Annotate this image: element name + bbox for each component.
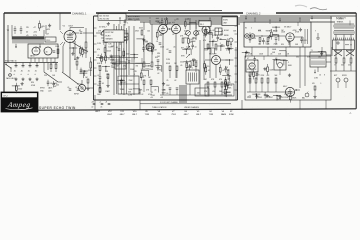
tube V6 6SL7: [284, 26, 294, 41]
node small box T: [199, 21, 211, 26]
node T2 upper text: [26, 27, 42, 37]
capacitor C65 10: [217, 35, 222, 42]
wire junction: [252, 93, 260, 99]
resistor R1 plate: [84, 28, 89, 58]
wire ch2 drops: [252, 47, 322, 56]
tube V2 6SL7: [99, 27, 111, 36]
tube V14 5AR4: [30, 47, 40, 58]
wire ch2 drop right: [330, 16, 332, 56]
capacitor C5: [166, 49, 171, 52]
wire bus column 4: [128, 26, 130, 75]
wire echo vertical 2: [209, 24, 211, 78]
resistor R72: [261, 75, 266, 83]
node below bus labels: [248, 95, 282, 99]
wire: [219, 40, 226, 46]
wire junction: [273, 95, 281, 101]
node mid box upper: [117, 33, 128, 40]
ground: [266, 94, 269, 97]
node echo send cluster: [224, 30, 233, 50]
tube V10 6SL7: [144, 41, 154, 52]
wire junction: [130, 54, 138, 60]
wire junction: [225, 59, 233, 65]
node value labels .005 2.2M: [277, 96, 281, 101]
capacitor C60 .02: [120, 78, 126, 85]
speaker terminal box: [333, 38, 355, 50]
resistor R43 500K: [104, 45, 112, 56]
node mid right cluster: [141, 77, 153, 96]
ground: [21, 82, 24, 85]
node mixer cluster: [192, 59, 197, 72]
node value labels 1500 1500: [145, 66, 149, 71]
wire ch1 diagonal: [62, 72, 78, 84]
resistor R55 680K: [289, 92, 297, 103]
node V9 arrow: [295, 89, 300, 91]
svg-text:LEFT: LEFT: [95, 111, 101, 113]
speaker SP1: [334, 51, 342, 57]
node pre-PI labels: [225, 67, 229, 85]
wire V3 V4 leads: [163, 28, 176, 95]
resistor R66 470K: [253, 69, 261, 80]
node power right cluster: [312, 83, 321, 98]
node intensity control: [181, 46, 190, 50]
node value label row upper: [98, 30, 237, 32]
tube V1 6SL7: [63, 26, 77, 43]
node echo connector box redraw: [222, 17, 237, 26]
ground: [263, 67, 266, 70]
node rectifier box: [28, 44, 58, 58]
node value labels 470K 56K: [192, 38, 197, 43]
node value labels 12K .05: [106, 74, 110, 79]
resistor R71: [255, 75, 260, 83]
node power label row: [296, 57, 321, 59]
tube V11 12AX7: [200, 24, 210, 35]
node voltage chart box: [98, 14, 126, 21]
node vibrato extra labels: [157, 62, 185, 76]
node value labels 10K 100K: [108, 43, 113, 48]
wire junction: [190, 60, 198, 66]
node ground G1: [14, 78, 17, 81]
wire: [151, 87, 158, 93]
node value labels 100K 33K: [123, 37, 128, 42]
node tube chart columns: [95, 111, 234, 116]
node ch2 jack labels: [245, 28, 252, 30]
resistor R64 470K: [249, 32, 257, 43]
node aux chart box: [104, 30, 124, 42]
resistor R60 .005: [39, 21, 45, 32]
node value labels 1500 2.2M: [124, 31, 128, 36]
capacitor C75 .1: [124, 19, 129, 26]
capacitor C53 filter: [27, 63, 31, 76]
wire drop C: [235, 47, 237, 100]
node bleeder labels: [44, 75, 56, 77]
capacitor C6: [219, 43, 223, 46]
node label CHANNEL 1: [72, 11, 87, 15]
wire drop F: [241, 100, 243, 110]
node rail tap 5: [311, 16, 313, 20]
resistor R52 .02: [219, 65, 224, 76]
wire junction: [217, 45, 225, 51]
node value labels 47K .1: [134, 71, 138, 76]
node input jack J1: [74, 85, 86, 96]
ground: [142, 38, 145, 41]
node smudge: [295, 5, 307, 7]
node ground lug symbol: [315, 31, 320, 40]
wire: [184, 49, 191, 55]
resistor R62 .02: [79, 46, 84, 57]
node bias labels top: [128, 15, 140, 21]
resistor R50 500K: [205, 27, 213, 38]
wire bus column 1: [113, 24, 115, 95]
node ground G2: [21, 78, 24, 81]
resistor R48 1M: [227, 38, 233, 49]
wire junction: [223, 91, 231, 97]
node value labels 33K 2.2M: [128, 91, 132, 96]
resistor R61: [50, 63, 52, 73]
capacitor C66 10: [191, 43, 196, 50]
node V1 pin stubs: [60, 31, 74, 45]
resistor R54 .02: [205, 64, 210, 75]
resistor R3: [139, 27, 144, 35]
node tone control box: [118, 76, 139, 94]
resistor R4: [145, 41, 149, 49]
resistor R74: [275, 75, 279, 83]
node value labels 820 470K: [31, 82, 36, 87]
wire supply diagonal: [44, 72, 62, 82]
wire ch2 signal: [255, 35, 286, 36]
switch SW1: [5, 63, 11, 73]
capacitor C1 coupling: [73, 30, 94, 33]
node T2 arrow left: [15, 44, 17, 49]
wire junction: [209, 41, 217, 47]
node rail tap 4: [279, 18, 281, 22]
node mid lower cluster: [97, 63, 102, 93]
node value labels .005 680K: [155, 18, 160, 23]
tube V3 6SL7: [157, 22, 168, 34]
wire V1 diagonal: [72, 42, 88, 52]
resistor R49 10K: [188, 36, 195, 47]
node line label row: [5, 59, 17, 62]
node chassis edge pins: [94, 28, 97, 84]
node aux chart box redraw: [104, 30, 124, 42]
node value label row G: [160, 34, 224, 36]
capacitor C20: [275, 38, 278, 45]
capacitor C2: [116, 47, 121, 50]
node ch2 right tick: [305, 29, 308, 44]
resistor R40 .01: [101, 54, 106, 65]
node top right text: [336, 18, 350, 26]
wire mid horizontal 2: [112, 58, 150, 64]
node bottom row values: [146, 90, 166, 100]
node pot P1: [184, 31, 190, 40]
ground: [162, 82, 165, 85]
resistor R61 820: [81, 47, 87, 58]
node value labels .01 2.2M: [151, 92, 155, 97]
node pot P2: [192, 31, 198, 40]
node T1 secondary labels: [314, 75, 325, 80]
wire junction: [117, 80, 125, 86]
ground: [107, 22, 110, 25]
capacitor C76 .02: [227, 19, 233, 26]
wire: [133, 89, 140, 95]
resistor R67 1M: [166, 17, 172, 28]
resistor R2 grid: [88, 57, 93, 76]
tube V5 7199: [209, 53, 221, 64]
node value label row H: [160, 47, 190, 49]
wire drop H: [325, 100, 327, 110]
node bottom row caps: [67, 87, 102, 96]
capacitor C67 10: [224, 66, 229, 73]
wire filter drops: [44, 63, 48, 73]
wire jack to box: [86, 87, 94, 89]
ground: [245, 51, 248, 54]
wire V2 leads: [96, 33, 114, 58]
capacitor C3: [126, 59, 131, 62]
node driver box B: [274, 58, 286, 70]
node value labels 100K .05: [138, 90, 143, 95]
node value labels .005 47K: [190, 39, 194, 44]
node right lower cluster: [334, 75, 348, 88]
transformer T1 output: [310, 50, 326, 67]
wire riser c1: [143, 22, 145, 62]
node value label row mid: [98, 66, 152, 68]
resistor R65 500K: [267, 64, 275, 75]
capacitor C64 .02: [103, 38, 109, 45]
resistor R53 820: [204, 61, 210, 72]
node mid value labels: [111, 46, 135, 71]
node value labels 10K .1: [185, 62, 189, 67]
wire left frame: [3, 13, 5, 92]
capacitor C56: [14, 26, 17, 34]
wire inner chassis bottom: [94, 99, 238, 101]
wire T1 leads: [318, 55, 331, 72]
resistor R21: [267, 38, 269, 46]
wire B+ rail 1: [98, 17, 332, 19]
resistor R6: [149, 62, 154, 71]
ground: [268, 35, 271, 38]
ground: [48, 24, 51, 27]
wire rail stub right: [240, 15, 356, 17]
node phase inverter cluster: [204, 79, 223, 95]
wire mid horizontal: [96, 57, 138, 59]
wire bus column 6: [116, 26, 118, 94]
wire junction: [273, 59, 281, 65]
wire: [120, 38, 127, 44]
wire power bus: [247, 83, 295, 92]
node rail junction dots: [119, 17, 300, 20]
capacitor C63 .005: [142, 46, 149, 53]
wire T2 leads: [8, 25, 46, 62]
wire drop A: [94, 95, 96, 110]
resistor R69 1500: [16, 83, 23, 94]
wire top frame right segment: [276, 12, 356, 14]
wire: [135, 63, 142, 69]
node rail tap 2: [198, 20, 200, 24]
node vibrato cluster 2: [166, 85, 178, 95]
node logo header strip: [2, 93, 37, 97]
wire drop G: [299, 100, 301, 110]
transformer T4 secondary: [334, 31, 354, 35]
node main bus pins: [235, 26, 238, 90]
wire junction: [242, 52, 250, 58]
node supply voltage labels: [46, 29, 50, 36]
wire power verticals: [252, 47, 305, 88]
tube V9 6SL7: [283, 86, 295, 97]
ground: [320, 52, 323, 55]
wire: [142, 70, 149, 76]
capacitor C50 can: [44, 47, 52, 55]
node T2 arrow right: [39, 44, 41, 49]
resistor R58 33K: [226, 82, 233, 93]
node jack J2: [245, 34, 249, 38]
node ch2 value cluster: [281, 32, 300, 47]
resistor R63 250K: [270, 29, 278, 39]
wire bus column 8: [126, 28, 128, 94]
wire junction: [318, 51, 326, 57]
wire drop E: [331, 47, 333, 56]
node bottom left caps cluster: [91, 102, 110, 109]
wire: [189, 23, 196, 29]
ground: [288, 74, 291, 77]
wire echo vertical 1: [203, 34, 205, 80]
node pi outline: [205, 84, 234, 96]
wire junction: [225, 48, 233, 54]
capacitor C68 .1: [188, 64, 193, 71]
node value labels 680K 100K: [110, 59, 115, 64]
tube V4 6SL7: [172, 22, 181, 34]
wire junction: [79, 72, 87, 78]
resistor R32: [348, 58, 352, 67]
capacitor C54 filter: [34, 63, 38, 76]
wire center ground bus: [160, 94, 232, 96]
wire main vertical bus: [237, 16, 239, 100]
resistor R9: [215, 44, 217, 49]
node ground G3: [28, 78, 31, 81]
ground: [106, 32, 109, 35]
ground: [110, 55, 113, 58]
capacitor C73 .1: [253, 56, 258, 63]
transformer T2 hatch: [13, 40, 43, 44]
node echo value cluster: [203, 30, 216, 42]
ground: [207, 21, 210, 24]
ground: [299, 28, 302, 31]
node value labels 2.2M 220K: [284, 94, 289, 99]
node value labels 100K 10K: [272, 49, 277, 54]
capacitor C74 .01: [264, 92, 270, 99]
node T1 arrow: [314, 70, 316, 74]
node lower left text: [40, 87, 53, 93]
node jack J3: [250, 34, 254, 38]
node value labels 6.8K .02: [228, 75, 232, 80]
node mid right cluster 2: [155, 57, 160, 69]
wire B+ rail 2: [108, 19, 310, 21]
wire junction: [12, 85, 20, 91]
wire B+ rail 0: [128, 10, 222, 12]
tube V7 7591 in box: [247, 58, 255, 69]
capacitor C71 .005: [300, 37, 307, 44]
node echo connector box: [222, 17, 237, 26]
node value labels .1 100K: [288, 62, 293, 67]
wire V1 leads: [63, 28, 84, 79]
wire riser c2: [151, 24, 153, 62]
capacitor C70 .005: [80, 68, 87, 75]
node balance pot: [302, 92, 309, 100]
wire: [279, 51, 286, 57]
node ch2 label row: [258, 30, 297, 32]
node value labels 500K 10K: [53, 83, 58, 88]
node power pin row: [247, 97, 284, 99]
wire top frame left segment: [4, 12, 71, 14]
node relay box: [215, 28, 222, 35]
fuse F1: [6, 74, 16, 80]
wire: [184, 62, 191, 68]
speaker SP2: [346, 51, 354, 57]
wire right frame: [355, 13, 357, 109]
node vibrato cluster: [166, 59, 178, 82]
svg-text:-1-: -1-: [349, 112, 352, 114]
capacitor C78 .02: [47, 80, 53, 87]
node grid stopper: [74, 59, 78, 70]
resistor R45 1500: [123, 48, 130, 59]
wire bus column 3: [123, 24, 125, 95]
ground: [71, 52, 74, 55]
wire: [272, 35, 279, 41]
wire jack lead: [77, 80, 82, 85]
node Ampeg logo plate: [1, 92, 38, 112]
wire junction: [280, 60, 288, 66]
node V2 bias labels: [97, 43, 101, 57]
node rail tap 1: [161, 18, 163, 22]
node channel 2 enclosure: [244, 22, 311, 47]
wire junction: [272, 26, 280, 32]
node power left extra: [247, 69, 258, 82]
wire bus column 5: [133, 26, 135, 95]
capacitor C4: [156, 41, 162, 44]
resistor R31: [341, 58, 345, 67]
node top mid labels: [164, 19, 190, 21]
resistor R8: [207, 44, 209, 49]
wire junction: [101, 37, 109, 43]
resistor R30: [334, 58, 337, 67]
wire vibrato cable bundle: [180, 85, 186, 103]
node Ampeg script: [6, 101, 33, 110]
transformer T3 interstage: [186, 68, 200, 85]
wire heater rail: [150, 23, 240, 25]
transformer T4 primary: [334, 24, 354, 28]
resistor R44 1M: [151, 44, 157, 55]
node mid lower cluster 2: [105, 71, 110, 93]
capacitor C61 10: [99, 55, 104, 62]
wire: [155, 66, 162, 72]
node value labels 820 1M: [157, 53, 160, 58]
node value label row echo: [204, 50, 230, 52]
node mid box lower: [115, 62, 126, 69]
resistor R59 6.8K: [224, 86, 231, 97]
node rail drop stubs: [120, 18, 300, 26]
svg-text:5AR4: 5AR4: [221, 113, 227, 116]
wire: [204, 49, 211, 55]
wire drop B: [139, 100, 141, 110]
capacitor C72 .01: [262, 38, 268, 45]
node label CHANNEL 2: [246, 11, 261, 15]
capacitor C69 .05: [227, 82, 233, 89]
wire right risers: [330, 35, 356, 72]
wire junction: [80, 70, 88, 76]
transformer T4 power label: [337, 19, 345, 24]
wire: [222, 75, 229, 81]
transformer T2 winding bar: [12, 36, 44, 39]
resistor R46 56K: [156, 30, 163, 41]
node power label row2: [248, 54, 290, 56]
